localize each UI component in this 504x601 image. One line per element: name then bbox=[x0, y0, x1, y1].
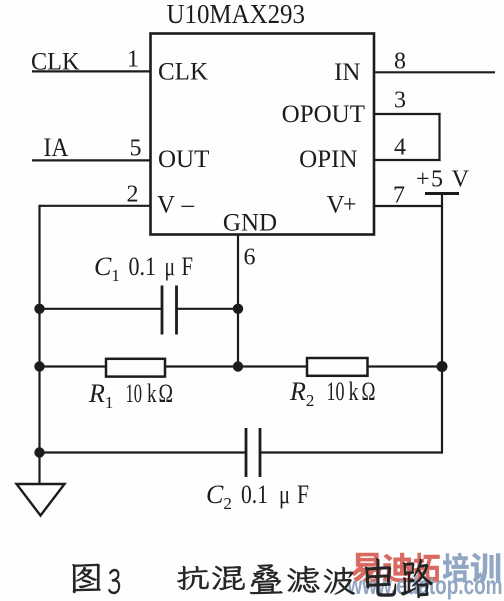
wire left rail to C1 bbox=[40, 308, 162, 310]
svg-text:R110kΩ: R110kΩ bbox=[88, 379, 173, 412]
wire pin 4 (OPIN) bbox=[374, 159, 441, 161]
wire R1 to R2 bbox=[165, 365, 307, 367]
svg-text:7: 7 bbox=[393, 183, 405, 209]
svg-text:CLK: CLK bbox=[158, 59, 208, 86]
wire joining pins 3 and 4 bbox=[438, 113, 440, 161]
ground symbol bbox=[17, 484, 65, 516]
svg-text:3: 3 bbox=[394, 88, 406, 114]
wire IA input to pin 5 (OUT) bbox=[32, 159, 151, 161]
junction dot left rail / C1 bbox=[34, 304, 44, 314]
wire pin 8 (IN) output bbox=[374, 71, 495, 73]
wire pin 2 (V-) to left rail bbox=[40, 205, 151, 207]
resistor R1 body bbox=[106, 359, 165, 377]
svg-text:IA: IA bbox=[44, 133, 69, 162]
wire pin 6 (GND) stub down bbox=[237, 235, 239, 367]
svg-text:R210kΩ: R210kΩ bbox=[289, 377, 376, 410]
svg-text:GND: GND bbox=[223, 210, 277, 237]
svg-text:1: 1 bbox=[127, 47, 139, 73]
svg-text:2: 2 bbox=[127, 182, 139, 208]
junction dot GND stub / R1-R2 bbox=[233, 361, 243, 371]
svg-text:IN: IN bbox=[334, 59, 360, 86]
junction dot GND net / C1 bbox=[233, 304, 243, 314]
svg-text:U10MAX293: U10MAX293 bbox=[167, 0, 306, 29]
wire left vertical rail bbox=[38, 205, 40, 484]
wire ground node to C2 bbox=[40, 451, 246, 453]
wire pin 3 (OPOUT) bbox=[374, 113, 441, 115]
svg-text:OPIN: OPIN bbox=[299, 146, 357, 173]
svg-text:V+: V+ bbox=[327, 192, 357, 219]
wire pin 7 (V+) to +5V rail bbox=[374, 205, 442, 207]
wire R2 to right rail bbox=[368, 365, 443, 367]
wire CLK input to pin 1 bbox=[32, 70, 151, 72]
wire C1 to GND net bbox=[177, 308, 238, 310]
resistor R2 body bbox=[307, 358, 368, 376]
svg-text:5: 5 bbox=[130, 136, 142, 162]
watermark logo text bbox=[347, 553, 503, 600]
junction dot right rail / R2 bbox=[437, 361, 448, 372]
svg-text:OUT: OUT bbox=[158, 146, 209, 173]
wire right vertical rail from +5V down bbox=[441, 194, 443, 454]
wire C2 to right rail bbox=[261, 451, 443, 453]
capacitor C1 plates bbox=[161, 286, 164, 335]
junction dot left rail / C2 / ground bbox=[34, 447, 44, 457]
svg-text:8: 8 bbox=[394, 49, 406, 75]
capacitor C2 plates bbox=[245, 428, 248, 477]
svg-text:+5 V: +5 V bbox=[416, 167, 470, 193]
svg-text:4: 4 bbox=[394, 135, 406, 161]
junction dot left rail / R1 bbox=[34, 361, 44, 371]
caption: figure 3 anti-aliasing filter circuit bbox=[73, 558, 433, 598]
svg-text:6: 6 bbox=[244, 245, 256, 271]
power rail bar +5V bbox=[425, 192, 459, 195]
op-amp/filter IC U10 MAX293 body bbox=[151, 34, 375, 235]
svg-text:OPOUT: OPOUT bbox=[282, 101, 365, 128]
wire left rail to R1 bbox=[40, 365, 107, 367]
